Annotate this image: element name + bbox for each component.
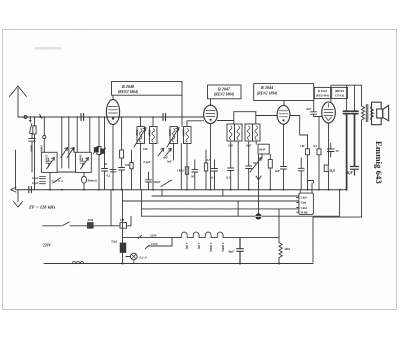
capacitor C2 [29,134,36,172]
wire [180,144,182,190]
IF transformer T2 coil d [253,124,261,141]
capacitor C1 on bus [81,114,84,121]
wire [76,117,78,152]
capacitor C5 [102,117,108,190]
node [339,189,341,191]
wire [15,150,17,190]
wire [61,117,63,168]
tap arrowhead [29,120,32,123]
node [76,116,78,118]
fuse FU2 [120,243,126,252]
wire [173,144,175,161]
svg-text:4kΩ: 4kΩ [283,247,290,251]
slash mark [40,115,42,119]
node [307,189,309,191]
svg-text:50: 50 [104,162,108,166]
tap arrow node [29,117,31,120]
tube V1 label box [112,82,183,96]
tube V2 [204,105,218,123]
wire [237,201,239,216]
tube V3 cathode wire [283,124,285,166]
trimmer arrow CT7 [166,148,172,156]
antenna [10,86,27,117]
svg-text:8μF: 8μF [229,250,236,254]
selector line [123,237,178,239]
wire [89,117,91,152]
junction dots on ground bus [49,189,341,191]
node [44,116,46,118]
svg-text:2600: 2600 [168,129,172,137]
junction node [239,263,241,265]
capacitor pair C26 [40,177,46,179]
riser wire [110,190,112,226]
svg-text:3800: 3800 [148,129,152,137]
fuse FU1 [88,223,121,229]
B+ drop wire 1 [346,85,348,111]
node [152,116,154,118]
svg-text:1000: 1000 [40,145,44,152]
svg-text:4 (M): 4 (M) [185,242,189,250]
svg-text:1 MΩ: 1 MΩ [177,169,185,173]
node [248,189,250,191]
capacitor C17 [343,111,350,190]
node [121,189,123,191]
capacitor C13 [281,167,287,190]
wire [222,190,224,196]
wire [261,154,263,158]
wire [83,172,85,189]
svg-text:(RES 964): (RES 964) [316,93,329,97]
bottom rail between boxes [57,171,75,173]
capacitor C15 [327,143,334,157]
svg-text:T0,8: T0,8 [111,240,117,244]
wire to speaker [313,216,361,218]
riser wire long [122,190,124,264]
svg-text:0,1: 0,1 [226,176,230,180]
IF transformer T1 coil a [137,127,145,144]
output transformer T3 core [366,105,368,122]
svg-text:2 (B0h): 2 (B0h) [209,242,213,252]
IF transformer T2 coil a [227,124,235,141]
node [61,116,63,118]
tube V4 cathode wire [328,123,330,165]
svg-text:0,1μF: 0,1μF [32,182,39,185]
trimmer arrow CT5 [250,158,262,173]
junction node [122,263,124,265]
node [152,189,154,191]
svg-text:(60mA): (60mA) [88,179,97,183]
wire [230,141,232,168]
tube V1 anode stub [112,95,114,99]
svg-text:B 2048: B 2048 [121,84,135,89]
wire V3 grid bus [290,116,308,136]
svg-text:2500: 2500 [72,146,76,154]
node [318,189,320,191]
terminal ticks [297,197,299,212]
junction node [278,263,280,265]
linkage dashed [52,180,63,182]
svg-text:(REN2 1864): (REN2 1864) [118,90,138,94]
capacitor C21 [192,160,198,190]
svg-text:5nF: 5nF [167,160,172,164]
tube V3 anode stub [283,101,285,106]
wire [140,144,142,190]
svg-text:3nF: 3nF [305,107,312,111]
svg-text:100: 100 [143,147,148,151]
node [49,189,51,191]
tube V3 [277,105,290,124]
trimmer blob a [94,147,100,154]
capacitor C14 grid V4 [311,112,322,117]
svg-text:1M: 1M [120,218,125,222]
svg-text:500: 500 [95,147,99,152]
IF transformer T1 coil b [150,127,158,144]
wire [43,117,45,135]
svg-text:13500: 13500 [44,155,48,163]
tube V1 cathode wire [112,125,114,190]
grid cap wire from V3 box [313,101,315,112]
feedback wire from box [181,95,183,126]
switch S1 lever [30,124,33,134]
node [39,116,41,118]
node [68,116,70,118]
node [269,189,271,191]
band filter box left [41,152,57,172]
svg-text:2600: 2600 [182,129,186,137]
svg-text:4 (M): 4 (M) [197,242,201,250]
svg-text:6,8: 6,8 [347,170,353,175]
node [61,189,63,191]
ground symbol [14,202,23,208]
resistor R1 [33,117,36,190]
ground bus wire [16,189,346,191]
svg-text:0,1μF: 0,1μF [32,177,39,180]
svg-text:(REN2 1884): (REN2 1884) [214,93,234,97]
input arrow [11,187,16,192]
svg-text:50: 50 [253,161,257,165]
svg-text:1374 d): 1374 d) [335,93,344,97]
svg-text:0,1μF: 0,1μF [144,160,151,164]
svg-text:0,5: 0,5 [330,168,336,173]
contact S3 [138,235,142,238]
anode top wire [331,85,362,102]
HT bus wire [142,215,340,217]
node [98,116,100,118]
output transformer T3 primary [362,85,365,217]
band filter box right [76,152,92,172]
svg-text:220V: 220V [42,244,51,248]
node [121,116,123,118]
capacitor C6 [119,168,125,190]
capacitor C19 [351,167,359,176]
svg-text:1M: 1M [300,144,305,148]
riser wire [339,190,341,216]
resistor R9 [317,117,321,191]
riser wire [141,190,143,217]
IF transformer T2 coil b [235,124,243,141]
connector box top bracket [300,181,313,194]
node [89,116,91,118]
node [210,189,212,191]
svg-text:ZF = 128 kHz: ZF = 128 kHz [28,204,56,209]
resistor R2 [97,117,101,190]
junction node big [255,213,261,219]
switch S2 [161,180,172,187]
svg-text:0,5: 0,5 [207,158,211,162]
bundle line L3 [142,208,299,210]
trimmer arrow CT1 [47,158,55,170]
capacitor in right box [80,158,85,167]
svg-text:5nF: 5nF [246,144,252,148]
wire [152,144,154,190]
resistor R10 field coil [279,209,282,264]
svg-text:50: 50 [191,175,195,179]
resistor R7 [324,165,328,190]
ground stub [17,190,19,202]
wire [140,117,142,127]
terminal circle [43,135,46,138]
capacitor C10 [246,166,252,190]
svg-text:M 6B: M 6B [301,210,308,214]
tube V1 [106,99,119,124]
svg-text:4nF: 4nF [162,156,168,160]
choke coil L2 [72,261,84,263]
svg-text:0,1: 0,1 [107,174,111,178]
resistor R11 [185,167,188,175]
resistor R12 [130,150,133,190]
trimmer arrow CT6 [158,148,164,156]
gang tuning arrow b [67,148,74,158]
IF transformer T1 coil c [170,127,178,144]
svg-text:B 2044: B 2044 [260,85,273,90]
svg-text:0,1: 0,1 [211,176,215,180]
tube V2 cathode wire [210,124,212,190]
node [283,189,285,191]
node [112,189,114,191]
wire [248,141,250,166]
wire [237,141,239,190]
B+ drop wire 2 [354,85,356,111]
node [98,189,100,191]
wire [152,117,154,127]
svg-text:220V: 220V [149,233,158,237]
capacitor C24 [146,172,152,190]
capacitor in left box [46,158,51,167]
tube V2 anode stub [210,99,212,106]
tube V2 label box [208,85,242,99]
svg-text:3800: 3800 [135,129,139,137]
output transformer T3 secondary [371,107,374,120]
resistor R8 [306,135,310,190]
svg-text:Emmig 643: Emmig 643 [374,141,384,184]
wire [43,139,45,153]
trimmer arrow CT2 [81,158,89,170]
tube V3 label box [254,84,314,101]
node [140,116,142,118]
component on mains line [120,216,131,228]
detector box D1 [258,144,269,154]
ground arrow node [256,155,261,216]
riser wire [161,190,163,196]
main top bus wire [18,116,203,118]
node [186,189,188,191]
oval meter K1 [81,176,86,183]
svg-text:110V: 110V [151,242,159,246]
IF transformer T2 coil c [245,124,253,141]
capacitor C12 [212,160,218,190]
node [328,189,330,191]
junction dots on top bus [30,116,154,118]
trimmer arrow CT4 [167,128,179,148]
resistor R5 [204,150,207,190]
svg-text:Gnd: Gnd [301,201,307,205]
mains bottom line [44,263,313,265]
svg-text:B 2047: B 2047 [217,86,231,91]
tube V4 label box b [332,87,348,98]
anode wire V2 to T2 [217,112,255,124]
svg-text:5600: 5600 [78,155,82,162]
svg-text:4000: 4000 [30,144,34,152]
svg-text:100pF: 100pF [153,180,161,184]
capacitor C25 cathode bypass [110,169,116,172]
capacitor C23 on ground bus [29,187,32,193]
tube V4 [322,102,336,123]
IF transformer T1 coil d [184,127,192,144]
svg-text:0,1 A: 0,1 A [140,255,148,259]
bundle line L2 [123,200,300,202]
selector tap riser [149,238,173,246]
svg-text:0,3: 0,3 [313,144,317,148]
svg-text:2 kΩ: 2 kΩ [301,206,308,210]
svg-text:100: 100 [228,144,233,148]
mains switch line [43,222,88,226]
svg-text:50: 50 [336,149,340,153]
grid wire to V2 [187,121,204,127]
svg-text:6045: 6045 [259,148,266,152]
bundle line L1 [152,195,299,197]
tube V4 label box a [314,87,330,98]
wire [186,144,188,190]
node [230,189,232,191]
electrolytic C20 [237,238,243,264]
capacitor C16 [298,158,304,190]
wire [255,141,257,144]
speaker LS [372,102,389,125]
node stripe [256,215,262,217]
transformer winding bumps [177,232,279,238]
connector box X1 [299,193,314,214]
wave switch lever [53,178,61,183]
svg-text:2 (B8h): 2 (B8h) [221,242,225,252]
resistor R3 [120,117,124,168]
node [30,116,32,118]
node [104,116,106,118]
gang tuning arrow a [61,148,68,158]
wire [312,217,314,262]
dial lamp LP1 [126,253,137,263]
capacitor C18 [351,111,358,166]
antenna terminal node [24,116,27,119]
trimmer blob b [100,148,106,155]
node [83,189,85,191]
capacitor C4 on bus [163,114,166,121]
node [34,116,36,118]
trimmer arrow CT3 [134,128,146,148]
svg-text:(REN2 1894): (REN2 1894) [257,91,277,95]
capacitor pair C27 [40,182,46,184]
svg-text:2 kΩ: 2 kΩ [301,196,308,200]
wire [68,117,70,168]
svg-text:1nF: 1nF [275,169,281,173]
contact S4 [145,245,149,248]
faint smudge top-left [35,47,61,50]
svg-text:100: 100 [125,163,130,167]
svg-text:DM: DM [87,218,94,222]
grid wire T2 to V3 [256,112,277,124]
resistor R6 [268,155,272,190]
capacitor C9 [228,168,234,190]
wire [49,172,51,189]
